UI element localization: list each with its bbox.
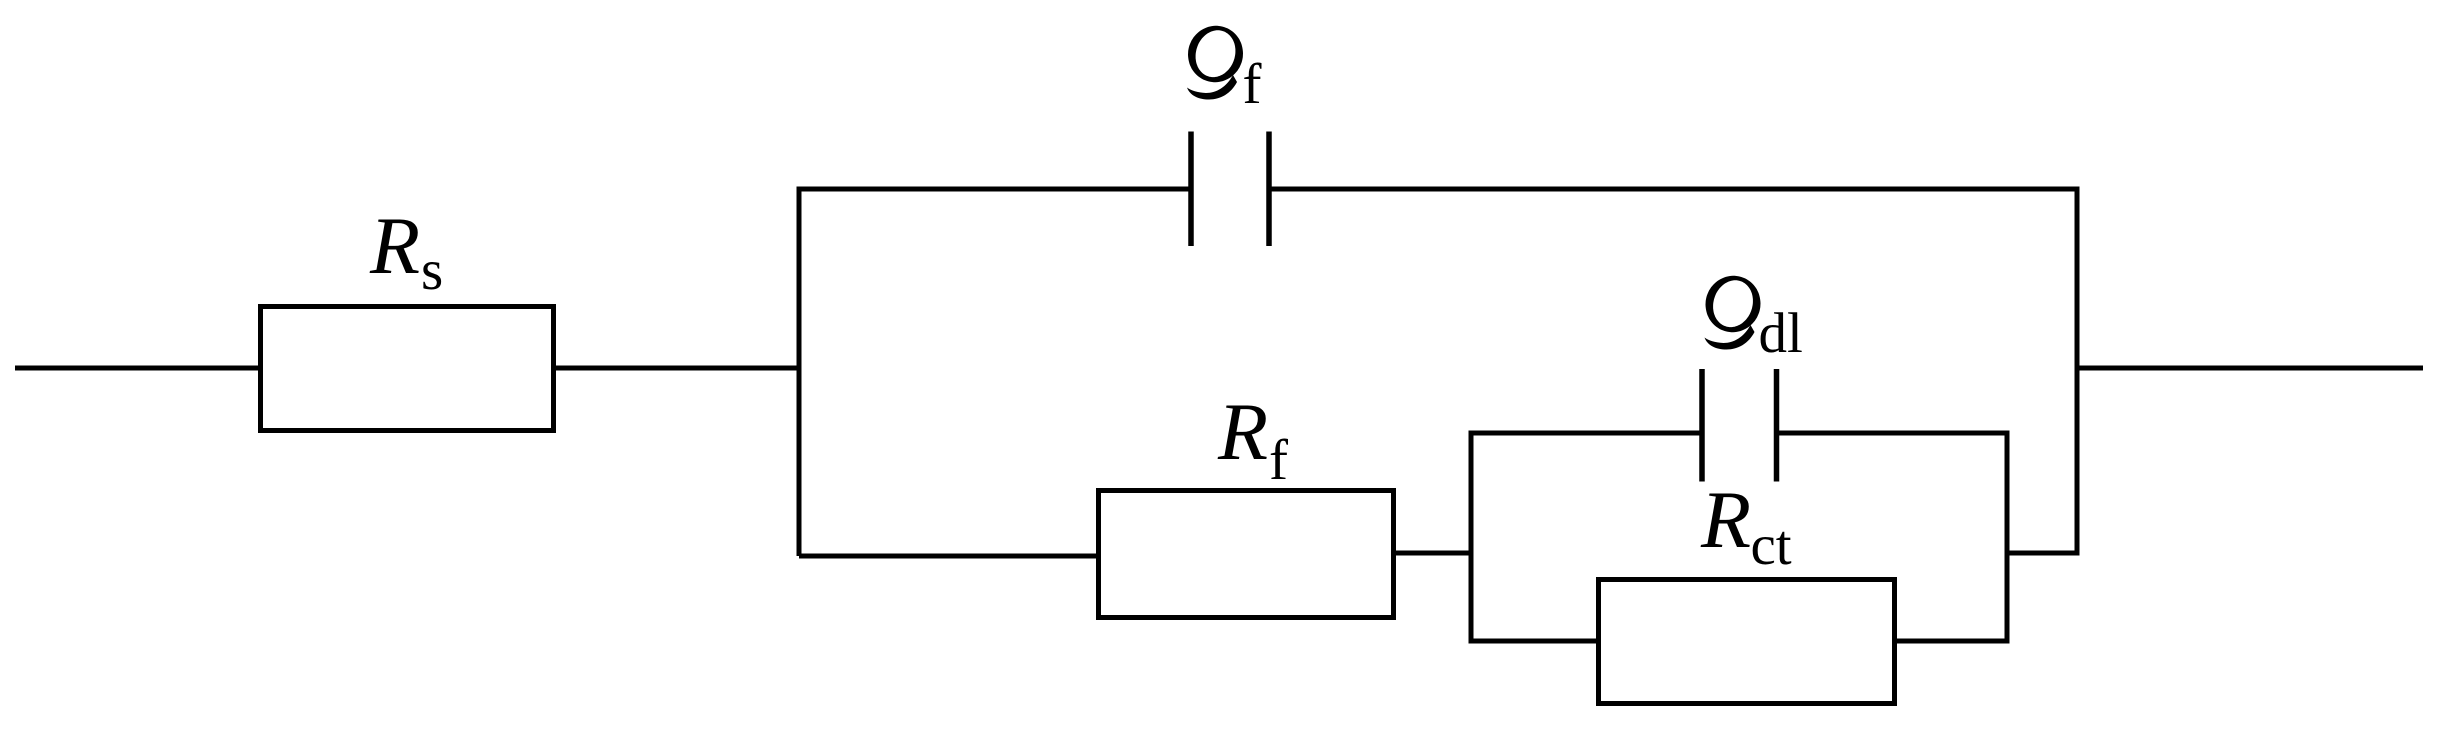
wire Qdl to inner right vertical — [1777, 431, 2010, 436]
resistor Rs — [261, 307, 554, 431]
wire Rct to inner right vertical — [1894, 639, 2010, 644]
inner parallel right vertical — [2005, 433, 2010, 641]
wire inner top-left to Qdl — [1469, 431, 1703, 436]
wire outer parallel left vertical (node A) — [797, 189, 802, 556]
wire inner block to outer right vertical — [2007, 551, 2080, 556]
wire Rf to inner parallel block — [1394, 551, 1474, 556]
svg-text:dl: dl — [1759, 302, 1803, 365]
capacitor Qf — [1191, 132, 1269, 247]
svg-text:R: R — [1700, 474, 1751, 565]
label Qf (italic Q bowl) — [1188, 26, 1243, 82]
wire output right — [2077, 366, 2423, 371]
inner parallel left vertical — [1469, 433, 1474, 641]
wire outer top-left to Qf — [797, 187, 1192, 192]
wire Qf to outer right vertical — [1269, 187, 2080, 192]
label Qdl (italic Q bowl) — [1706, 276, 1761, 332]
wire outer bottom-left to Rf — [799, 554, 1098, 559]
resistor Rct — [1599, 580, 1895, 704]
capacitor Qdl — [1702, 369, 1777, 482]
outer parallel right vertical — [2075, 189, 2080, 553]
svg-text:ct: ct — [1751, 514, 1792, 577]
wire Rs to branch node — [553, 366, 799, 371]
wire input left — [15, 366, 260, 371]
swash tail of Qf — [1187, 75, 1237, 100]
svg-text:s: s — [421, 239, 443, 302]
resistor Rf — [1099, 491, 1394, 618]
wire inner bottom-left to Rct — [1469, 639, 1599, 644]
svg-text:f: f — [1243, 53, 1262, 116]
swash tail of Qdl — [1705, 325, 1755, 350]
svg-text:R: R — [369, 200, 420, 291]
svg-text:R: R — [1217, 386, 1268, 477]
svg-text:f: f — [1269, 429, 1288, 492]
